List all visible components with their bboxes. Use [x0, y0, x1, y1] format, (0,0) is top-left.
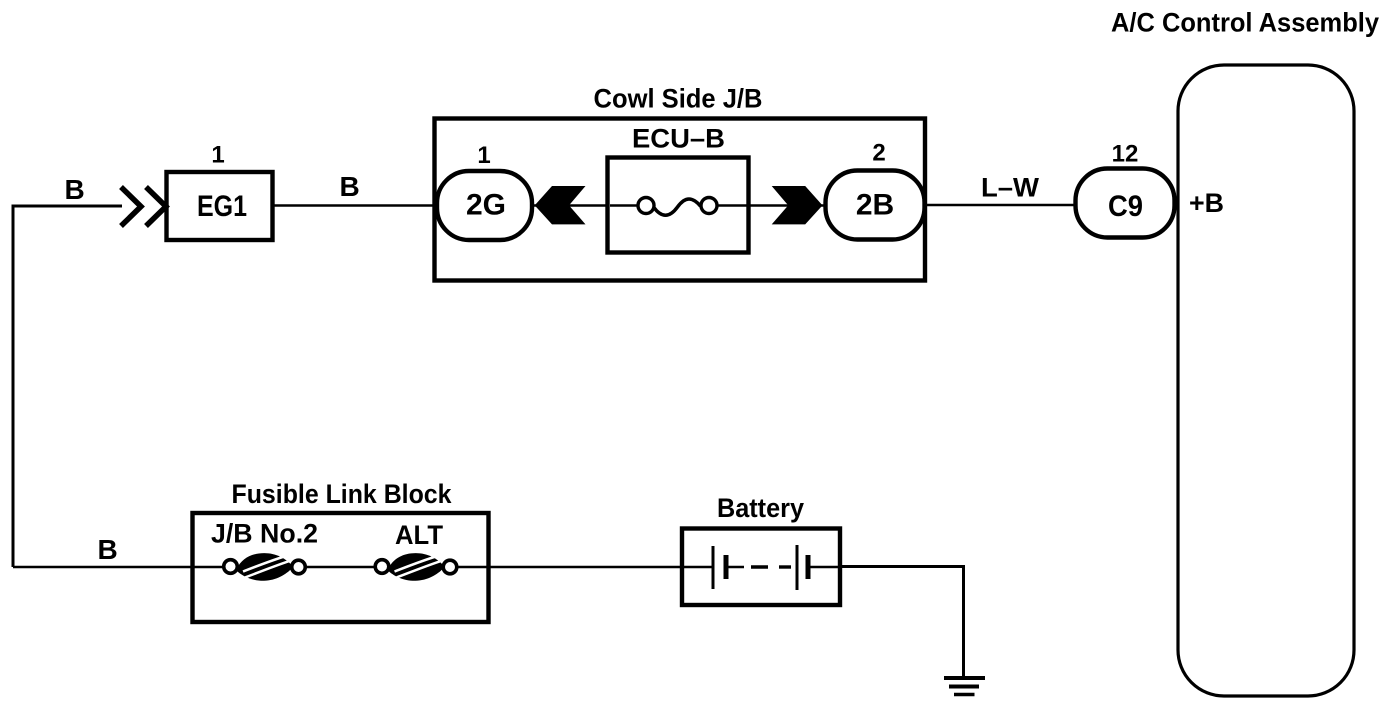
- wire: left riser top horizontal to splice: [13, 206, 122, 567]
- battery box: [682, 529, 840, 606]
- battery cell symbol: [684, 545, 838, 590]
- cowl side J/B box: [435, 119, 926, 281]
- svg-text:B: B: [65, 174, 85, 205]
- svg-text:ECU–B: ECU–B: [632, 124, 725, 154]
- svg-text:Battery: Battery: [717, 493, 804, 523]
- fusible link J/B No.2 element: [224, 553, 306, 581]
- arrow pointing left into 2G: [535, 186, 586, 224]
- wire: fusible link block to battery: [489, 566, 682, 569]
- wire: battery to ground: [840, 567, 964, 678]
- fusible link ALT element: [375, 553, 457, 581]
- svg-text:B: B: [98, 534, 118, 565]
- connector EG1: [167, 172, 273, 240]
- svg-text:J/B No.2: J/B No.2: [211, 519, 318, 549]
- splice chevron 2: [146, 187, 166, 226]
- wire: EG1 to cowl J/B: [274, 204, 437, 207]
- connector 2B: [826, 171, 925, 240]
- A/C control assembly outline: [1178, 65, 1354, 696]
- svg-text:+B: +B: [1189, 188, 1224, 218]
- svg-text:1: 1: [477, 142, 490, 169]
- svg-text:Cowl Side J/B: Cowl Side J/B: [594, 84, 763, 114]
- splice chevron 1: [121, 187, 141, 226]
- wire: 2B to C9 (L-W): [927, 204, 1074, 207]
- svg-text:EG1: EG1: [197, 190, 247, 223]
- svg-text:1: 1: [211, 142, 224, 169]
- wire inside fusible link block: [194, 566, 488, 569]
- fuse ECU-B box: [608, 158, 749, 253]
- svg-text:A/C Control Assembly: A/C Control Assembly: [1111, 8, 1379, 38]
- svg-text:2G: 2G: [466, 189, 506, 222]
- svg-text:ALT: ALT: [395, 520, 443, 550]
- svg-text:2: 2: [872, 140, 885, 167]
- arrow pointing right into 2B: [772, 186, 823, 224]
- svg-text:12: 12: [1112, 141, 1139, 168]
- connector 2G: [437, 171, 532, 240]
- wire: fuse box to 2B: [749, 204, 824, 207]
- svg-text:B: B: [340, 171, 360, 202]
- wire: 2G to fuse box: [534, 204, 606, 207]
- fuse element: [610, 198, 747, 216]
- wire: bottom run from riser to fusible link block: [13, 566, 192, 569]
- ground symbol: [944, 678, 985, 695]
- svg-text:L–W: L–W: [981, 173, 1040, 203]
- svg-text:C9: C9: [1108, 190, 1143, 223]
- svg-text:2B: 2B: [856, 189, 894, 222]
- fusible link block box: [193, 513, 489, 622]
- connector C9: [1076, 169, 1175, 238]
- svg-text:Fusible Link Block: Fusible Link Block: [232, 479, 453, 509]
